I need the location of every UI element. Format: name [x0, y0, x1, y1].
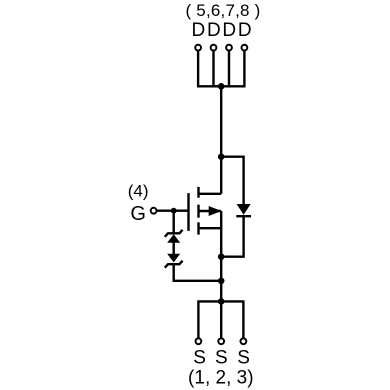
- svg-text:S: S: [215, 348, 228, 369]
- svg-text:D: D: [192, 20, 206, 41]
- body diode D1 cathode bar: [236, 215, 251, 217]
- zener Z2 anode triangle: [167, 254, 180, 263]
- wire drain bus to mosfet drain: [220, 86, 222, 194]
- wire D8 to drain bus: [243, 51, 245, 87]
- zener Z1 cathode bar: [165, 230, 183, 237]
- svg-text:S: S: [237, 348, 250, 369]
- terminal D pin7: [226, 45, 232, 51]
- terminal D pin5: [195, 45, 201, 51]
- body diode D1 anode triangle: [237, 204, 251, 215]
- mosfet Q1 channel top segment: [197, 187, 199, 198]
- wire D5 to drain bus: [197, 51, 199, 87]
- wire D6 to drain bus: [212, 51, 214, 87]
- svg-text:( 5,6,7,8 ): ( 5,6,7,8 ): [186, 1, 261, 20]
- svg-text:G: G: [130, 203, 146, 225]
- junction drain / body diode node: [218, 153, 225, 160]
- terminal G pin4: [151, 208, 157, 214]
- wire drain bus: [197, 85, 246, 87]
- junction body diode / source node: [218, 253, 225, 260]
- wire D7 to drain bus: [228, 51, 230, 87]
- mosfet Q1 gate line: [187, 193, 189, 231]
- zener Z1 anode triangle: [167, 234, 180, 243]
- terminal S pin1: [196, 338, 202, 344]
- terminal D pin8: [242, 45, 248, 51]
- junction drain bus node: [218, 83, 225, 90]
- wire S2 to source bus: [220, 301, 222, 338]
- label D pin names: [192, 20, 252, 41]
- wire zener Z2 to source node: [174, 264, 222, 281]
- svg-text:D: D: [238, 20, 252, 41]
- junction gate / zener node: [171, 208, 177, 214]
- wire between zeners: [172, 243, 174, 255]
- wire gate lead: [157, 209, 189, 211]
- mosfet Q1 body lead: [199, 210, 222, 212]
- svg-text:(4): (4): [128, 181, 149, 200]
- zener Z2 cathode bar: [165, 261, 183, 268]
- terminal S pin3: [241, 338, 247, 344]
- wire body diode to source node: [221, 216, 243, 257]
- wire S3 to source bus: [242, 301, 244, 338]
- wire drain node to body diode top: [221, 157, 243, 205]
- svg-text:D: D: [207, 20, 221, 41]
- mosfet Q1 channel middle segment: [197, 205, 199, 218]
- junction zener / source node: [218, 278, 225, 285]
- wire S1 to source bus: [197, 301, 199, 338]
- mosfet Q1 channel bottom segment: [197, 222, 199, 234]
- label S pin names: [193, 348, 250, 369]
- svg-text:D: D: [222, 20, 236, 41]
- junction source bus node: [218, 298, 225, 305]
- wire source bus: [197, 300, 244, 302]
- mosfet Q1 source lead: [199, 227, 222, 229]
- mosfet Q1 body arrow: [209, 206, 222, 216]
- mosfet Q1 drain lead: [199, 193, 222, 195]
- svg-text:S: S: [193, 348, 206, 369]
- terminal S pin2: [218, 338, 224, 344]
- svg-text:(1, 2, 3): (1, 2, 3): [188, 368, 253, 389]
- wire gate node to zener Z1: [172, 211, 174, 234]
- wire mosfet source down to S bus: [220, 211, 222, 301]
- terminal D pin6: [211, 45, 217, 51]
